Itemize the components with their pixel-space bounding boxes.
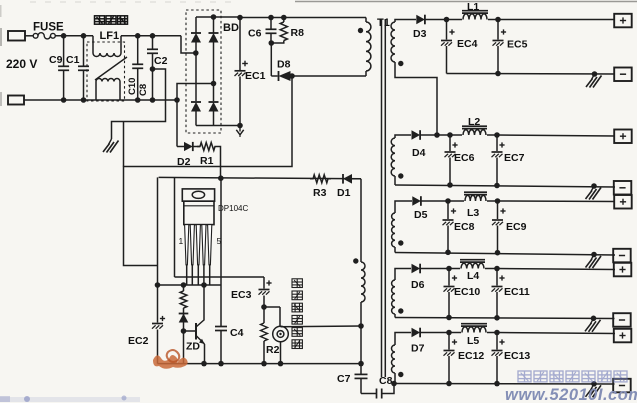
svg-text:EC12: EC12 — [458, 350, 484, 362]
wire AC1 to bridge — [181, 36, 196, 53]
terminal out3- — [613, 249, 631, 262]
svg-text:C4: C4 — [230, 327, 244, 339]
label T1 — [377, 17, 390, 29]
wire out4+ — [497, 269, 615, 270]
svg-text:D7: D7 — [411, 343, 425, 355]
svg-text:C7: C7 — [337, 373, 351, 385]
wire bridge left column — [193, 17, 199, 126]
wire IC left bus — [155, 177, 161, 287]
label LF1 — [100, 30, 120, 42]
label EC8 — [454, 221, 475, 233]
label BD — [223, 22, 239, 34]
capacitor C6 — [266, 18, 277, 46]
label + EC9 — [500, 208, 505, 213]
wire out2+ — [497, 135, 615, 136]
label + EC4 — [449, 29, 454, 34]
wire snubber to D8 — [270, 43, 272, 76]
wire top rail to bridge — [121, 33, 181, 39]
label + EC7 — [499, 142, 504, 147]
label + EC6 — [452, 142, 457, 147]
svg-text:EC13: EC13 — [504, 350, 530, 362]
label + EC1 — [242, 61, 248, 67]
svg-text:L1: L1 — [467, 1, 479, 13]
wire out3+ — [498, 200, 616, 203]
terminal out4+ — [614, 263, 632, 277]
label EC4 — [457, 38, 478, 50]
resistor R4 (bias) — [180, 285, 187, 308]
label pin 5 — [217, 236, 222, 246]
wire bridge top rail — [196, 14, 240, 20]
svg-text:www.52010I.com: www.52010I.com — [505, 386, 637, 403]
label C4 — [230, 327, 244, 339]
capacitor EC10 — [444, 269, 455, 318]
svg-text:R8: R8 — [291, 27, 305, 39]
svg-text:R2: R2 — [266, 344, 280, 356]
phase dot primary — [358, 28, 363, 33]
label + EC8 — [451, 208, 456, 213]
ground out4 — [585, 318, 601, 332]
wire control ground rail — [158, 361, 364, 367]
svg-text:1: 1 — [179, 236, 184, 246]
label C6 — [248, 28, 262, 40]
wire C2 to ground — [112, 69, 166, 139]
svg-text:T1: T1 — [377, 17, 390, 29]
svg-text:BD: BD — [223, 22, 239, 34]
capacitor EC13 — [492, 333, 503, 384]
watermark CJK blue — [518, 371, 627, 382]
wire EC3 feed — [175, 276, 265, 278]
capacitor EC6 — [445, 135, 456, 185]
label EC12 — [458, 350, 484, 362]
transformer secondary 1 — [391, 20, 437, 136]
node EC8 top — [445, 198, 451, 204]
svg-text:EC7: EC7 — [504, 152, 525, 164]
label R8 — [291, 27, 305, 39]
diode BD bottom-left — [191, 102, 201, 112]
label D6 — [411, 279, 425, 291]
capacitor C1 — [78, 36, 89, 100]
diode D5 — [412, 196, 448, 206]
wire out3- — [395, 250, 615, 258]
wire EC3 node — [261, 304, 280, 310]
capacitor C8 — [361, 384, 394, 399]
phase dot secondary 4 — [398, 308, 403, 313]
terminal out5+ — [614, 329, 632, 343]
diode D2 — [177, 142, 200, 151]
label ZD — [186, 341, 200, 353]
terminal out5- — [613, 379, 631, 393]
label D8 — [277, 59, 291, 71]
diode D1 — [343, 174, 361, 184]
svg-text:EC1: EC1 — [245, 70, 266, 82]
label + EC13 — [499, 339, 504, 344]
resistor R8 — [271, 18, 287, 44]
svg-text:D8: D8 — [277, 59, 291, 71]
wire primary bottom — [292, 75, 366, 77]
node EC6 top — [437, 132, 453, 138]
inductor L3 — [448, 192, 498, 201]
label C9 — [49, 54, 63, 66]
choke LF1 bottom winding — [96, 79, 120, 101]
choke LF1 core line — [95, 57, 127, 80]
terminal out4- — [613, 313, 631, 327]
svg-text:LF1: LF1 — [100, 30, 120, 42]
transformer secondary 2 — [391, 135, 411, 185]
wire top rail — [55, 33, 93, 39]
svg-text:EC2: EC2 — [128, 335, 149, 347]
label R2 — [266, 344, 280, 356]
wire sync link — [281, 325, 362, 328]
transformer T1 primary winding — [366, 18, 371, 77]
label L4 — [467, 270, 479, 282]
wire AC2 riser — [177, 84, 214, 101]
node L1 out — [495, 17, 501, 23]
label L3 — [467, 207, 479, 219]
node EC12 top — [446, 330, 452, 336]
svg-text:EC10: EC10 — [454, 286, 480, 298]
zener ZD — [179, 308, 189, 364]
label EC11 — [504, 286, 530, 298]
svg-text:C8: C8 — [138, 84, 149, 96]
phase dot secondary 3 — [398, 240, 403, 245]
op-amp U1 pins — [185, 225, 212, 265]
terminal out2- — [614, 181, 632, 195]
wire out2- — [395, 182, 615, 189]
wire Vcc rail — [159, 175, 361, 181]
terminal out2+ — [614, 130, 632, 144]
label D5 — [414, 209, 428, 221]
svg-text:C8: C8 — [379, 375, 393, 387]
svg-text:DP104C: DP104C — [218, 204, 248, 213]
op-amp U1 DP104C body — [184, 201, 214, 224]
svg-text:C10: C10 — [127, 78, 138, 95]
label R1 — [200, 155, 214, 167]
transformer secondary 4 — [392, 269, 411, 318]
wire bridge- to D2 — [176, 100, 178, 147]
transformer feedback winding — [358, 262, 365, 329]
diode D7 — [412, 328, 450, 338]
label L2 — [468, 116, 480, 128]
svg-text:D4: D4 — [412, 147, 426, 159]
label + EC5 — [501, 29, 506, 34]
ground (input filter) — [103, 139, 119, 153]
wire pin bus — [158, 282, 222, 288]
label + EC10 — [452, 275, 457, 280]
diode D6 — [412, 264, 450, 274]
wire out5- — [391, 381, 614, 387]
wire IC pin leads — [187, 265, 210, 285]
wire out1- — [447, 71, 616, 77]
ground out2 — [586, 186, 602, 200]
wire outer loop — [124, 76, 293, 266]
label sync circuit (CJK vertical) — [292, 279, 302, 349]
label C2 — [154, 55, 168, 67]
label EC7 — [504, 152, 525, 164]
node EC10 top — [446, 266, 452, 272]
svg-text:L4: L4 — [467, 270, 479, 282]
label D1 — [337, 187, 351, 199]
watermark bottom-left dots — [0, 396, 127, 403]
svg-text:EC5: EC5 — [507, 39, 528, 51]
label C10 (rotated) — [127, 78, 138, 95]
scan bottom-left blue smear — [0, 397, 140, 402]
ground out5 — [586, 384, 602, 398]
node sec1 return — [434, 132, 440, 138]
sync device B1 — [273, 307, 289, 364]
input terminal J1 (line) — [8, 31, 25, 41]
wire pin1 feed — [174, 177, 176, 277]
watermark url — [505, 386, 637, 403]
label D4 — [412, 147, 426, 159]
label EC13 — [504, 350, 530, 362]
label C8 (rotated) — [138, 84, 149, 96]
diode D4 — [412, 130, 438, 140]
wire feedback to C7 — [360, 326, 362, 364]
label DP104C — [218, 204, 248, 213]
svg-text:EC9: EC9 — [506, 221, 527, 233]
phase dot secondary 1 — [398, 61, 403, 66]
inductor L2 — [450, 126, 497, 135]
svg-text:EC4: EC4 — [457, 38, 478, 50]
node L3 out — [495, 198, 501, 204]
capacitor C7 — [355, 364, 368, 394]
label EC5 — [507, 39, 528, 51]
svg-text:C2: C2 — [154, 55, 168, 67]
node D8/primary — [289, 73, 295, 79]
diode BD bottom-right — [209, 102, 219, 112]
capacitor EC4 — [441, 20, 452, 74]
svg-text:C6: C6 — [248, 28, 262, 40]
capacitor C9 — [58, 36, 69, 100]
wire emitter — [204, 344, 206, 364]
capacitor C10 — [132, 36, 143, 100]
svg-text:L3: L3 — [467, 207, 479, 219]
label FUSE — [33, 22, 64, 34]
svg-text:R3: R3 — [313, 187, 327, 199]
wire bridge right column — [211, 17, 217, 126]
node L2 out — [494, 132, 500, 138]
terminal out1- — [614, 68, 632, 82]
input terminal J2 (neutral) — [8, 96, 24, 105]
capacitor C4 — [215, 179, 227, 364]
svg-text:EC11: EC11 — [504, 286, 530, 298]
label 220 V — [6, 57, 37, 71]
svg-text:EC3: EC3 — [231, 289, 252, 301]
diode BD top-right — [209, 33, 219, 43]
label C8 — [379, 375, 393, 387]
label D2 — [177, 156, 191, 168]
scan edge marks — [0, 5, 2, 106]
label L5 — [467, 335, 479, 347]
label + EC12 — [452, 339, 457, 344]
label L1 — [467, 1, 479, 13]
phase dot feedback — [353, 258, 358, 263]
label R3 — [313, 187, 327, 199]
wire bottom rail — [24, 97, 180, 103]
svg-text:EC8: EC8 — [454, 221, 475, 233]
label C7 — [337, 373, 351, 385]
svg-text:C9: C9 — [49, 54, 63, 66]
svg-text:ZD: ZD — [186, 341, 200, 353]
wire bridge bottom rail — [196, 123, 243, 129]
capacitor EC3 — [259, 277, 270, 307]
node L5 out — [494, 330, 500, 336]
watermark orange blob — [153, 350, 188, 369]
label D7 — [411, 343, 425, 355]
fuse FUSE — [33, 33, 55, 39]
wire collector — [203, 285, 205, 320]
diode D3 — [416, 15, 446, 25]
resistor R1 — [197, 143, 218, 151]
op-amp U1 DP104C tab — [182, 189, 214, 201]
phase dot secondary 5 — [398, 372, 403, 377]
wire D1 to feedback winding — [360, 179, 362, 262]
scan top edge line — [30, 1, 637, 4]
capacitor EC8 — [443, 201, 454, 252]
label C1 — [66, 54, 80, 66]
transformer secondary 3 — [392, 201, 412, 253]
capacitor EC7 — [492, 135, 503, 185]
diode BD top-left — [191, 33, 201, 43]
capacitor EC9 — [492, 201, 503, 253]
ground out1 — [586, 74, 602, 88]
transformer secondary 5 — [392, 333, 412, 384]
wire out4- — [395, 315, 615, 321]
svg-text:D1: D1 — [337, 187, 351, 199]
inductor L5 — [449, 324, 497, 333]
choke LF1 top winding — [93, 36, 121, 57]
label + EC2 — [160, 316, 165, 321]
svg-text:R1: R1 — [200, 155, 214, 167]
wire DC+ rail — [237, 15, 366, 21]
svg-text:C1: C1 — [66, 54, 80, 66]
terminal out3+ — [614, 195, 632, 209]
capacitor EC12 — [444, 333, 455, 384]
capacitor EC1 — [235, 18, 246, 126]
svg-text:D6: D6 — [411, 279, 425, 291]
label EC1 — [245, 70, 266, 82]
terminal out1+ — [614, 14, 632, 27]
label EC2 — [128, 335, 149, 347]
label EC3 — [231, 289, 252, 301]
capacitor EC2 — [152, 285, 163, 364]
svg-text:220 V: 220 V — [6, 57, 37, 71]
svg-text:L5: L5 — [467, 335, 479, 347]
wire out5+ — [497, 333, 615, 334]
label EC9 — [506, 221, 527, 233]
label + EC11 — [499, 275, 504, 280]
phase dot secondary 2 — [398, 173, 403, 178]
node sec1 — [444, 17, 450, 23]
capacitor C2 — [147, 36, 158, 100]
diode D8 — [271, 71, 292, 81]
label EC6 — [454, 152, 475, 164]
transistor Q1 — [184, 320, 205, 345]
label pin 1 — [179, 236, 184, 246]
svg-text:FUSE: FUSE — [33, 22, 64, 34]
resistor R3 — [310, 175, 331, 183]
ground arrow (DC minus) — [236, 126, 243, 138]
dashed box around LF1 — [87, 42, 125, 101]
label EC10 — [454, 286, 480, 298]
svg-text:D5: D5 — [414, 209, 428, 221]
inductor L4 — [449, 260, 497, 269]
svg-text:D3: D3 — [413, 28, 427, 40]
resistor R2 — [261, 307, 268, 364]
svg-text:EC6: EC6 — [454, 152, 475, 164]
capacitor EC5 — [493, 20, 504, 77]
label + EC3 — [266, 280, 271, 285]
svg-text:L2: L2 — [468, 116, 480, 128]
inductor L1 — [447, 11, 499, 20]
wire R1 to Vcc rail — [218, 147, 221, 179]
ground out3 — [586, 255, 602, 269]
dashed box around bridge BD — [186, 10, 221, 133]
wire — [25, 35, 33, 37]
node L4 out — [494, 266, 500, 272]
capacitor EC11 — [492, 269, 503, 318]
transformer core — [382, 19, 386, 377]
label filter (CJK) — [95, 16, 128, 24]
wire out1+ — [498, 19, 615, 21]
label D3 — [413, 28, 427, 40]
